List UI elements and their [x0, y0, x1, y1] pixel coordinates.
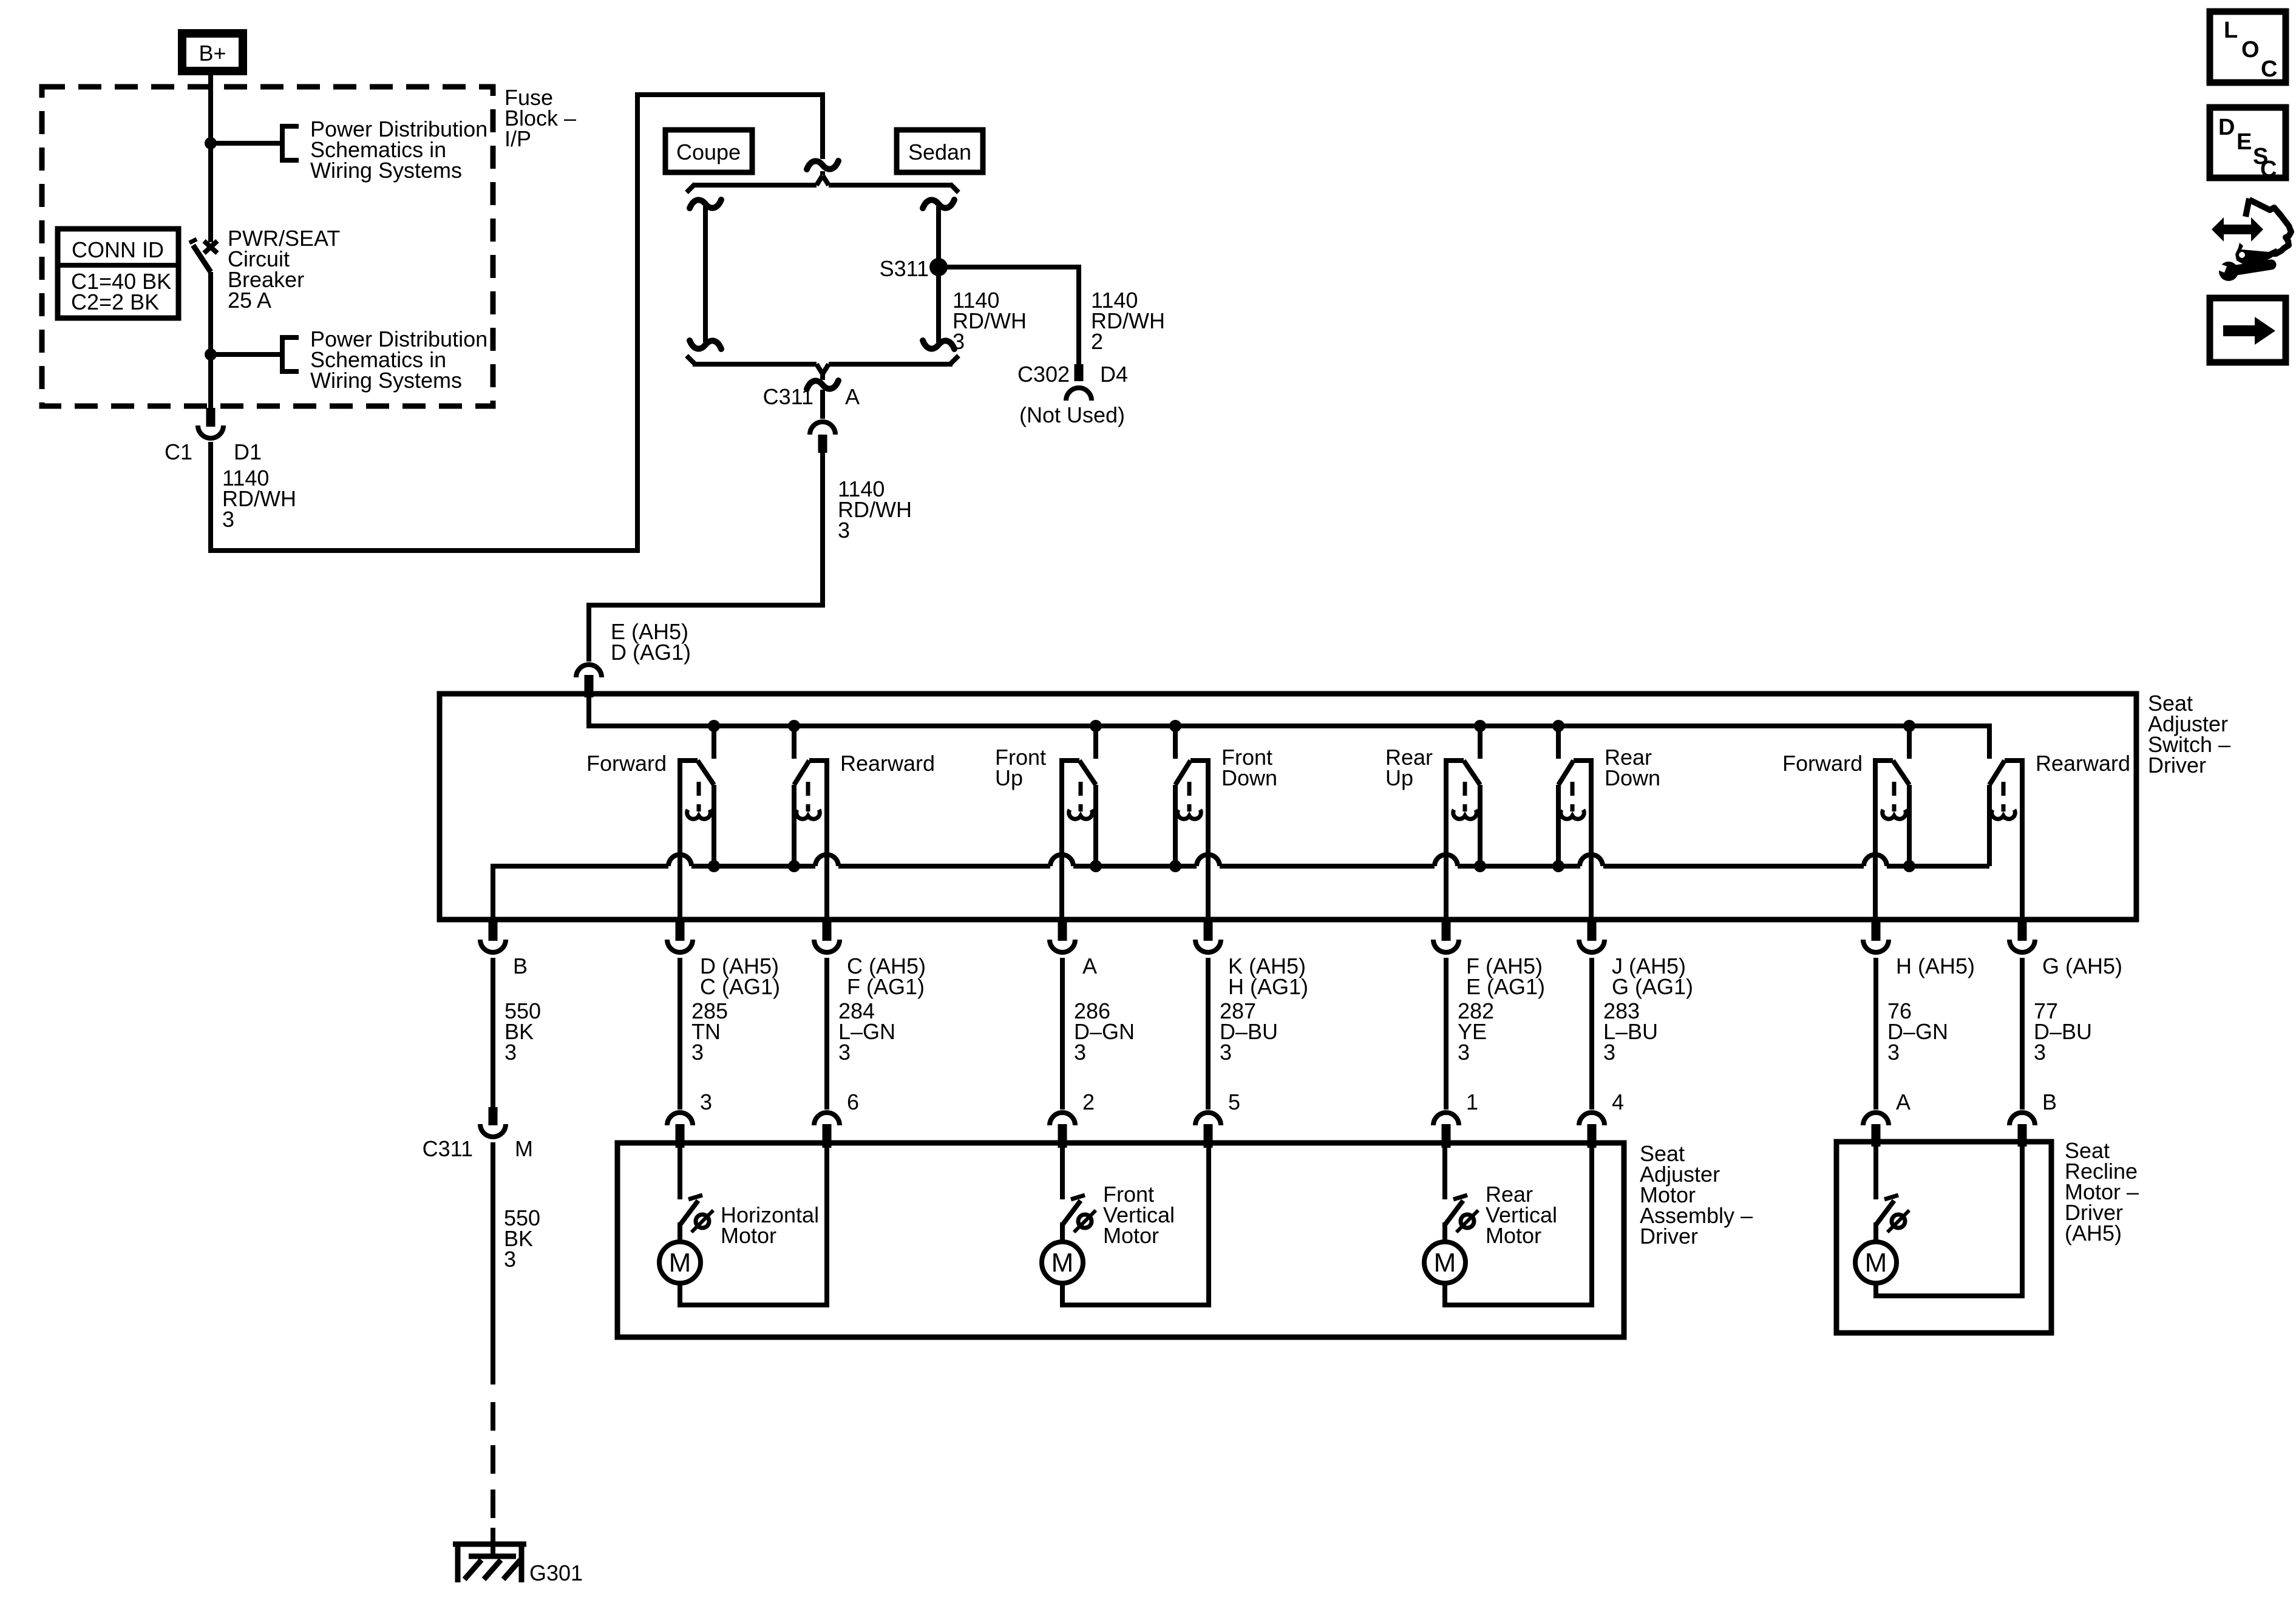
label pin G [2042, 954, 2122, 978]
svg-text:C: C [2261, 56, 2277, 82]
label pin A [1082, 954, 1097, 978]
svg-text:G301: G301 [529, 1561, 583, 1585]
svg-text:A: A [845, 384, 860, 409]
fuse block dashed outline [42, 87, 493, 406]
connector pin B at switch box exit [480, 922, 506, 952]
label terminal 5 [1228, 1090, 1240, 1114]
wire hop over seat rearward output [815, 855, 838, 866]
label pin B [513, 954, 528, 978]
motor M of rear vertical motor [1424, 1242, 1466, 1283]
label Front Down [1221, 745, 1277, 790]
svg-text:Down: Down [1605, 765, 1660, 790]
upper feed bus inside switch box [586, 694, 1989, 759]
wire circuit 76 D–GN [1873, 958, 1878, 1110]
svg-text:A: A [1896, 1090, 1911, 1114]
icon LOC [2210, 12, 2286, 83]
wire S311 branch to C302 [936, 265, 1079, 364]
icon DESC [2210, 107, 2286, 182]
seat forward switch body [678, 758, 720, 922]
label 283 L–BU 3 [1603, 998, 1658, 1065]
svg-text:C302: C302 [1017, 362, 1070, 387]
Seat Adjuster Motor Assembly box [617, 1143, 1624, 1337]
connector E (AH5) D (AG1) at switch box [576, 665, 602, 697]
connector pin pin A at motor box entry [1863, 1113, 1889, 1147]
svg-text:Wiring Systems: Wiring Systems [310, 368, 462, 393]
seat forward switch input stub [708, 720, 720, 759]
svg-text:M: M [1865, 1248, 1887, 1278]
wire front vertical motor feed [1060, 1143, 1065, 1199]
svg-text:(Not Used): (Not Used) [1019, 402, 1125, 427]
label terminal 2 [1082, 1090, 1095, 1114]
label pin F [1466, 954, 1545, 999]
svg-text:Rearward: Rearward [840, 751, 935, 776]
wire recline motor feed [1873, 1142, 1878, 1199]
rear up switch body [1444, 758, 1486, 922]
wire routing from breaker to coupe/sedan brace [208, 92, 823, 553]
front up switch body [1059, 758, 1102, 922]
svg-text:G (AH5): G (AH5) [2042, 954, 2122, 978]
bracket lower power distribution [280, 335, 299, 374]
svg-text:Coupe: Coupe [676, 140, 741, 164]
label Seat Recline Motor Driver (AH5) [2065, 1138, 2139, 1246]
wire hop over seat forward output [668, 855, 691, 866]
node junction to upper power distribution [205, 137, 281, 149]
label 77 D–BU 3 [2034, 998, 2092, 1065]
label pin C [847, 954, 926, 999]
svg-text:3: 3 [1220, 1040, 1232, 1065]
svg-text:M: M [1051, 1248, 1074, 1278]
CONN ID table [58, 229, 178, 318]
wire front vertical motor return loop [1060, 1143, 1211, 1305]
svg-text:Up: Up [995, 765, 1023, 790]
label Front Up [995, 745, 1046, 790]
bracket upper power distribution [280, 124, 299, 163]
front down switch body [1169, 758, 1211, 922]
label Power Distribution upper [310, 117, 487, 183]
splice S311 [880, 256, 948, 281]
label 287 D–BU 3 [1220, 998, 1278, 1065]
wire label 1140 RD/WH 3 (C1) [222, 466, 296, 532]
wire circuit 283 L–BU [1589, 958, 1594, 1110]
svg-text:(AH5): (AH5) [2065, 1221, 2122, 1246]
label terminal B [2042, 1090, 2057, 1114]
label 286 D–GN 3 [1074, 998, 1135, 1065]
svg-text:E (AG1): E (AG1) [1466, 974, 1545, 999]
svg-text:C311: C311 [763, 384, 813, 409]
recline forward switch input stub [1903, 720, 1915, 759]
wire recline motor return loop [1873, 1142, 2025, 1296]
lower option brace [687, 356, 959, 374]
wire circuit 284 L–GN [824, 958, 829, 1110]
svg-text:B: B [2042, 1090, 2057, 1114]
label 76 D–GN 3 [1887, 998, 1948, 1065]
motor M of recline motor [1855, 1242, 1897, 1283]
connector pin pin 6 at motor box entry [814, 1113, 840, 1148]
ground G301 [453, 1542, 583, 1585]
connector pin pin 2 at motor box entry [1050, 1113, 1075, 1148]
wire horizontal motor feed [678, 1143, 682, 1199]
wire horizontal motor return loop [678, 1143, 829, 1305]
label 282 YE 3 [1458, 998, 1494, 1065]
upper option brace [687, 175, 959, 192]
label 285 TN 3 [691, 998, 728, 1065]
option label box Sedan [897, 130, 983, 172]
svg-text:Wiring Systems: Wiring Systems [310, 158, 462, 183]
svg-text:3: 3 [1074, 1040, 1086, 1065]
Seat Recline Motor box [1836, 1142, 2051, 1333]
svg-text:A: A [1082, 954, 1097, 978]
svg-text:1: 1 [1466, 1090, 1478, 1114]
svg-text:Sedan: Sedan [908, 140, 971, 164]
connector pin G at switch box exit [2009, 922, 2035, 952]
wire hop over rear down output [1580, 855, 1603, 866]
svg-text:3: 3 [1887, 1040, 1900, 1065]
sedan variant wire [923, 200, 954, 349]
label 284 L–GN 3 [838, 998, 895, 1065]
connector C302 D4 not used [1017, 362, 1128, 427]
connector pin pin 3 at motor box entry [667, 1113, 693, 1148]
svg-text:Motor: Motor [721, 1223, 776, 1248]
rear down switch input stub [1552, 720, 1564, 759]
motor M of horizontal motor [659, 1242, 701, 1283]
wire hop over recline forward output [1864, 855, 1887, 866]
svg-text:4: 4 [1612, 1090, 1624, 1114]
svg-text:6: 6 [847, 1090, 859, 1114]
svg-text:3: 3 [700, 1090, 712, 1114]
svg-text:B: B [513, 954, 528, 978]
svg-text:2: 2 [1091, 329, 1103, 354]
connector pin A at switch box exit [1050, 922, 1075, 952]
label terminal 6 [847, 1090, 859, 1114]
svg-text:3: 3 [838, 1040, 851, 1065]
connector pin J at switch box exit [1579, 922, 1605, 952]
svg-text:Rearward: Rearward [2036, 751, 2130, 776]
wire circuit 285 TN [678, 958, 682, 1110]
wire circuit 287 D–BU [1206, 958, 1211, 1110]
internal switch of horizontal motor [680, 1195, 713, 1242]
wire hop over front up output [1050, 855, 1073, 866]
internal switch of front vertical motor [1062, 1195, 1096, 1242]
wire hop over rear up output [1435, 855, 1458, 866]
rear up switch input stub [1474, 720, 1486, 759]
wire circuit 550 BK [491, 958, 495, 1107]
wire circuit 286 D–GN [1060, 958, 1065, 1110]
connector pin pin 5 at motor box entry [1195, 1113, 1221, 1148]
connector C311 A [763, 384, 860, 453]
svg-text:3: 3 [504, 1247, 516, 1272]
internal switch of rear vertical motor [1445, 1195, 1478, 1242]
svg-text:2: 2 [1082, 1090, 1095, 1114]
svg-text:E: E [2237, 129, 2252, 155]
svg-text:Motor: Motor [1103, 1223, 1159, 1248]
svg-text:C1: C1 [165, 439, 192, 464]
label Fuse Block I/P [504, 85, 576, 151]
internal switch of recline motor [1876, 1195, 1909, 1242]
label Rear Down [1605, 745, 1660, 790]
connector pin pin 4 at motor box entry [1579, 1113, 1605, 1148]
connector pin C at switch box exit [814, 922, 840, 952]
svg-text:M: M [669, 1248, 691, 1278]
icon adjustable component (hand with arrow and wrench) [2212, 198, 2291, 281]
front down switch input stub [1169, 720, 1181, 759]
svg-text:Forward: Forward [1782, 751, 1863, 776]
wire rear vertical motor feed [1442, 1143, 1447, 1199]
motor M of front vertical motor [1042, 1242, 1083, 1283]
svg-text:O: O [2241, 37, 2260, 63]
wire circuit 282 YE [1444, 958, 1449, 1110]
recline forward switch body [1873, 758, 1915, 922]
svg-text:3: 3 [953, 329, 965, 354]
svg-text:Motor: Motor [1486, 1223, 1541, 1248]
connector pin pin B at motor box entry [2009, 1113, 2035, 1147]
icon forward arrow [2210, 298, 2286, 362]
label terminal 4 [1612, 1090, 1624, 1114]
wire label 1140 RD/WH 3 (sedan) [953, 288, 1027, 354]
wire break at brace top [807, 161, 838, 175]
Seat Adjuster Switch - Driver box [440, 694, 2136, 920]
wire label 1140 RD/WH 3 (C311) [838, 476, 912, 543]
label Rearward [840, 751, 935, 776]
svg-text:G (AG1): G (AG1) [1612, 974, 1693, 999]
label Forward [586, 751, 667, 776]
label C1 D1 [165, 439, 262, 464]
label pin H [1896, 954, 1975, 978]
svg-text:H (AG1): H (AG1) [1228, 974, 1308, 999]
svg-text:D: D [2218, 115, 2235, 140]
wire brace to C311 A [807, 373, 838, 419]
svg-text:Down: Down [1221, 765, 1277, 790]
label Seat Adjuster Motor Assembly Driver [1640, 1141, 1753, 1249]
label pin D [700, 954, 780, 999]
label Forward (recline) [1782, 751, 1863, 776]
svg-text:C: C [2260, 157, 2277, 182]
connector C311 M [423, 1107, 533, 1161]
wire C311 A to switch box [586, 450, 825, 662]
label 550 BK 3 (lower) [504, 1205, 540, 1272]
label E (AH5) D (AG1) [611, 619, 691, 665]
circuit breaker PWR/SEAT 25A [189, 239, 217, 408]
svg-text:3: 3 [222, 507, 234, 532]
svg-text:3: 3 [1458, 1040, 1470, 1065]
label Horizontal Motor [721, 1202, 819, 1248]
label pin J [1612, 954, 1693, 999]
svg-text:3: 3 [504, 1040, 517, 1065]
svg-text:Up: Up [1385, 765, 1413, 790]
dashed wire continuation [491, 1402, 495, 1556]
label terminal 3 [700, 1090, 712, 1114]
battery feed B+ symbol [182, 33, 243, 71]
label Rear Up [1385, 745, 1433, 790]
wire rear vertical motor return loop [1442, 1143, 1594, 1305]
svg-text:3: 3 [1603, 1040, 1615, 1065]
svg-text:D4: D4 [1100, 362, 1128, 387]
label Front Vertical Motor [1103, 1182, 1175, 1248]
wire B+ to breaker [208, 75, 213, 242]
label Power Distribution lower [310, 327, 487, 393]
svg-text:H (AH5): H (AH5) [1896, 954, 1975, 978]
svg-text:C2=2 BK: C2=2 BK [71, 290, 159, 314]
seat rearward switch input stub [788, 720, 800, 759]
svg-text:3: 3 [2034, 1040, 2046, 1065]
svg-text:I/P: I/P [504, 126, 531, 151]
svg-text:3: 3 [691, 1040, 704, 1065]
wire hop over front down output [1197, 855, 1220, 866]
label 550 BK 3 [504, 998, 541, 1065]
rear down switch body [1552, 758, 1594, 922]
svg-text:CONN ID: CONN ID [72, 237, 164, 262]
connector pin H at switch box exit [1863, 922, 1889, 952]
front up switch input stub [1090, 720, 1102, 759]
svg-text:S311: S311 [880, 256, 929, 281]
label pin K [1228, 954, 1308, 999]
label terminal A [1896, 1090, 1911, 1114]
svg-text:Driver: Driver [1640, 1224, 1698, 1249]
label Rear Vertical Motor [1486, 1182, 1557, 1248]
label terminal 1 [1466, 1090, 1478, 1114]
svg-text:25 A: 25 A [228, 288, 271, 313]
svg-text:D (AG1): D (AG1) [611, 640, 691, 665]
connector pin F at switch box exit [1433, 922, 1459, 952]
label Rearward (recline) [2036, 751, 2130, 776]
option label box Coupe [665, 130, 752, 172]
label PWR/SEAT Circuit Breaker 25 A [228, 226, 340, 313]
svg-text:5: 5 [1228, 1090, 1240, 1114]
svg-text:Driver: Driver [2148, 753, 2206, 778]
svg-text:F (AG1): F (AG1) [847, 974, 925, 999]
svg-text:C (AG1): C (AG1) [700, 974, 780, 999]
svg-text:L: L [2224, 18, 2238, 43]
svg-text:D1: D1 [234, 439, 262, 464]
svg-text:M: M [1434, 1248, 1456, 1278]
wire 550 BK 3 to ground [491, 1142, 495, 1384]
connector pin D at switch box exit [667, 922, 693, 952]
recline rearward switch body [1989, 758, 2025, 922]
svg-text:B+: B+ [199, 41, 226, 66]
wire label 1140 RD/WH 2 [1091, 288, 1165, 354]
lower return bus inside switch box [493, 864, 1989, 922]
svg-text:M: M [515, 1136, 533, 1161]
seat rearward switch body [788, 758, 829, 922]
svg-text:Forward: Forward [586, 751, 667, 776]
svg-text:3: 3 [838, 518, 850, 543]
connector pin K at switch box exit [1195, 922, 1221, 952]
label Seat Adjuster Switch Driver [2148, 691, 2230, 778]
connector C1 D1 [198, 408, 223, 438]
node junction to lower power distribution [205, 348, 281, 361]
connector pin pin 1 at motor box entry [1433, 1113, 1459, 1148]
wire circuit 77 D–BU [2020, 958, 2025, 1110]
svg-text:C311: C311 [423, 1136, 473, 1161]
coupe variant wire [690, 200, 721, 349]
